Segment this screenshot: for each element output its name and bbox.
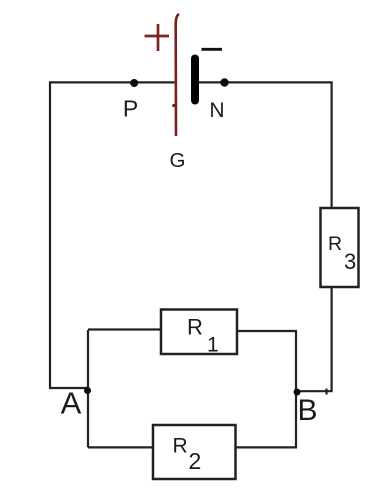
- svg-text:R: R: [328, 233, 342, 255]
- svg-text:N: N: [209, 99, 224, 122]
- svg-text:3: 3: [344, 249, 356, 274]
- svg-text:P: P: [123, 96, 138, 122]
- svg-text:B: B: [297, 394, 317, 427]
- svg-text:1: 1: [207, 334, 219, 357]
- svg-text:G: G: [170, 149, 186, 172]
- svg-text:2: 2: [189, 448, 202, 474]
- svg-text:R: R: [187, 315, 203, 340]
- svg-text:R: R: [173, 435, 188, 458]
- svg-text:A: A: [61, 386, 82, 421]
